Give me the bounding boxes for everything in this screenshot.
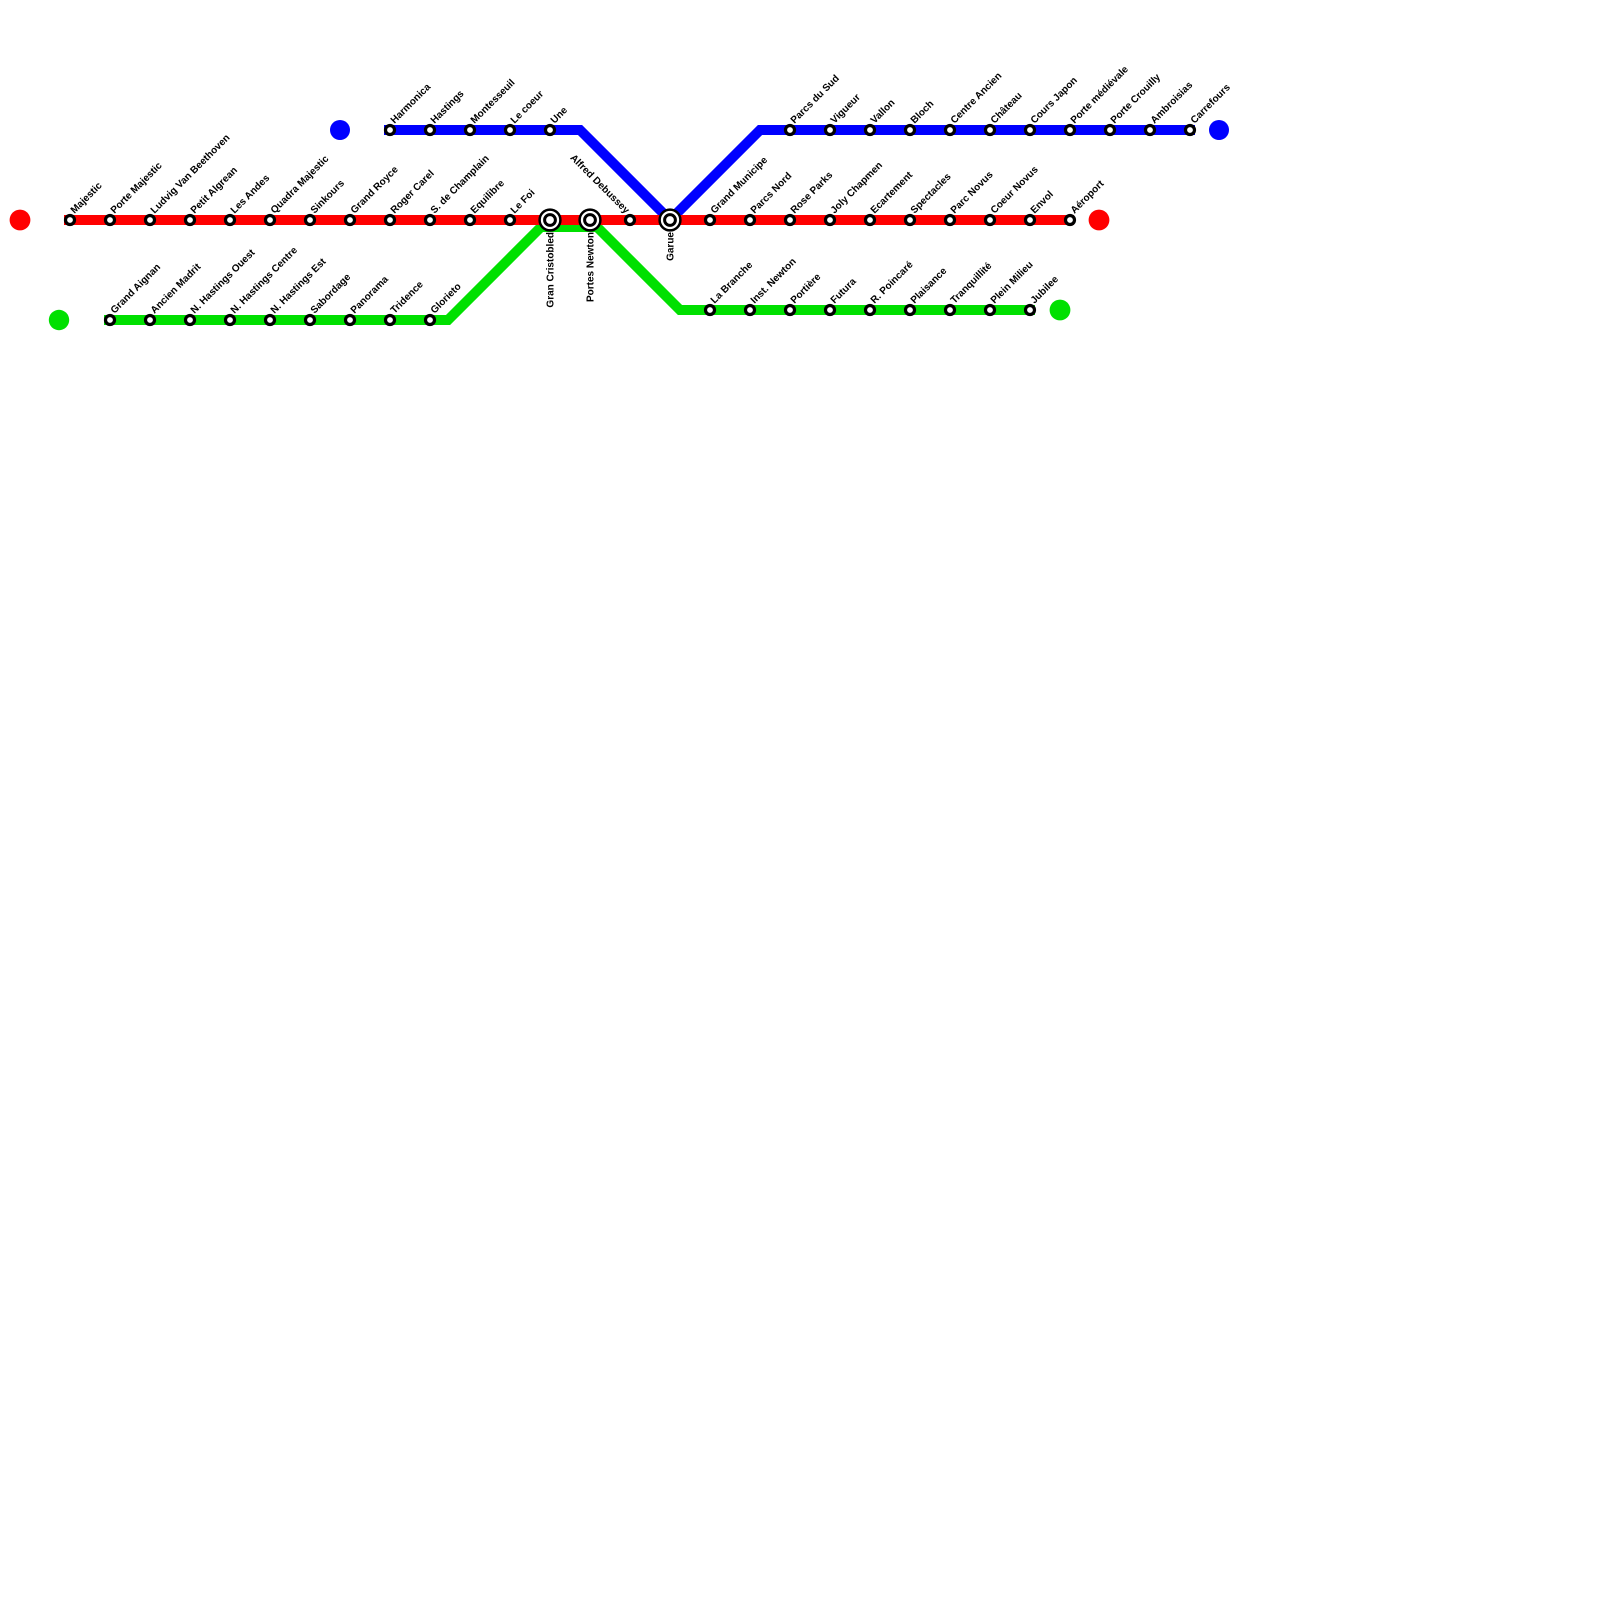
station Centre Ancien	[946, 126, 955, 135]
station Plaisance	[906, 306, 915, 315]
svg-text:Parcs Nord: Parcs Nord	[749, 171, 795, 217]
station Futura	[826, 306, 835, 315]
svg-text:Bloch: Bloch	[909, 99, 936, 126]
svg-text:Sabordage: Sabordage	[309, 271, 354, 316]
station Sabordage	[306, 316, 315, 325]
svg-text:N. Hastings Centre: N. Hastings Centre	[229, 245, 300, 316]
green line east terminal dot	[1050, 300, 1071, 321]
station Montesseuil	[466, 126, 475, 135]
station Spectacles	[906, 216, 915, 225]
svg-text:Panorama: Panorama	[349, 274, 391, 316]
svg-text:Ludvig Van Beethoven: Ludvig Van Beethoven	[149, 133, 233, 217]
station Parc Novus	[946, 216, 955, 225]
station Coeur Novus	[986, 216, 995, 225]
interchange station Garue	[660, 210, 681, 231]
station N. Hastings Est	[266, 316, 275, 325]
station Les Andes	[226, 216, 235, 225]
svg-text:Tranquillité: Tranquillité	[949, 260, 995, 306]
svg-text:Sinkours: Sinkours	[309, 178, 347, 216]
station N. Hastings Ouest	[186, 316, 195, 325]
svg-text:Château: Château	[989, 90, 1025, 126]
svg-text:Vigueur: Vigueur	[829, 92, 863, 126]
svg-text:Envol: Envol	[1029, 189, 1056, 216]
station Glorieto	[426, 316, 435, 325]
station Parcs du Sud	[786, 126, 795, 135]
svg-text:Gran Cristobled: Gran Cristobled	[546, 232, 557, 308]
svg-text:Spectacles: Spectacles	[909, 171, 954, 216]
green line	[104, 227, 1035, 320]
station Hastings	[426, 126, 435, 135]
red line west terminal dot	[10, 210, 31, 231]
station Grand Municipe	[706, 216, 715, 225]
station Inst. Newton	[746, 306, 755, 315]
svg-text:Hastings: Hastings	[429, 88, 467, 126]
station Jubilee	[1026, 306, 1035, 315]
green line west terminal dot	[49, 310, 69, 330]
svg-text:Les Andes: Les Andes	[229, 173, 273, 217]
blue line east terminal dot	[1209, 120, 1229, 140]
station Equilibre	[466, 216, 475, 225]
station Ludvig Van Beethoven	[146, 216, 155, 225]
svg-text:Portes Newton: Portes Newton	[586, 232, 597, 302]
station Petit Algrean	[186, 216, 195, 225]
interchange station Gran Cristobled	[540, 210, 561, 231]
station Vigueur	[826, 126, 835, 135]
station Parcs Nord	[746, 216, 755, 225]
station Le Foi	[506, 216, 515, 225]
station Harmonica	[386, 126, 395, 135]
svg-text:Futura: Futura	[829, 276, 859, 306]
station Cours Japon	[1026, 126, 1035, 135]
station Rose Parks	[786, 216, 795, 225]
station Bloch	[906, 126, 915, 135]
station Porte médiévale	[1066, 126, 1075, 135]
svg-text:Majestic: Majestic	[69, 180, 105, 216]
blue line	[384, 130, 1195, 220]
station Alfred Debussey	[626, 216, 635, 225]
station Sinkours	[306, 216, 315, 225]
svg-text:Tridence: Tridence	[389, 279, 426, 316]
svg-text:Le coeur: Le coeur	[509, 89, 546, 126]
station N. Hastings Centre	[226, 316, 235, 325]
station Aéroport	[1066, 216, 1075, 225]
station Majestic	[66, 216, 75, 225]
station Joly Chapmen	[826, 216, 835, 225]
station La Branche	[706, 306, 715, 315]
svg-text:Garue: Garue	[666, 232, 677, 261]
station Ecartement	[866, 216, 875, 225]
svg-text:Le Foi: Le Foi	[509, 187, 538, 216]
station Une	[546, 126, 555, 135]
station Ambroisias	[1146, 126, 1155, 135]
svg-text:Equilibre: Equilibre	[469, 178, 507, 216]
station Grand Aignan	[106, 316, 115, 325]
station S. de Champlain	[426, 216, 435, 225]
svg-text:Une: Une	[549, 105, 570, 126]
svg-text:Alfred Debussey: Alfred Debussey	[568, 153, 632, 217]
station Porte Crouilly	[1106, 126, 1115, 135]
station Carrefours	[1186, 126, 1195, 135]
station Roger Carel	[386, 216, 395, 225]
red line	[64, 215, 1074, 225]
station Château	[986, 126, 995, 135]
svg-text:Carrefours: Carrefours	[1189, 82, 1233, 126]
station Vallon	[866, 126, 875, 135]
station Ancien Madrit	[146, 316, 155, 325]
svg-text:Vallon: Vallon	[869, 98, 898, 127]
svg-text:Portière: Portière	[789, 271, 824, 306]
station Le coeur	[506, 126, 515, 135]
svg-text:Plaisance: Plaisance	[909, 265, 950, 306]
station Plein Milieu	[986, 306, 995, 315]
station Quadra Majestic	[266, 216, 275, 225]
station Panorama	[346, 316, 355, 325]
svg-text:Harmonica: Harmonica	[389, 81, 434, 126]
svg-text:N. Hastings Ouest: N. Hastings Ouest	[189, 247, 258, 316]
red line east terminal dot	[1089, 210, 1110, 231]
station Grand Royce	[346, 216, 355, 225]
station Envol	[1026, 216, 1035, 225]
station R. Poincaré	[866, 306, 875, 315]
interchange station Portes Newton	[580, 210, 601, 231]
blue line west terminal dot	[330, 120, 350, 140]
station Portière	[786, 306, 795, 315]
station Porte Majestic	[106, 216, 115, 225]
station Tranquillité	[946, 306, 955, 315]
station Tridence	[386, 316, 395, 325]
